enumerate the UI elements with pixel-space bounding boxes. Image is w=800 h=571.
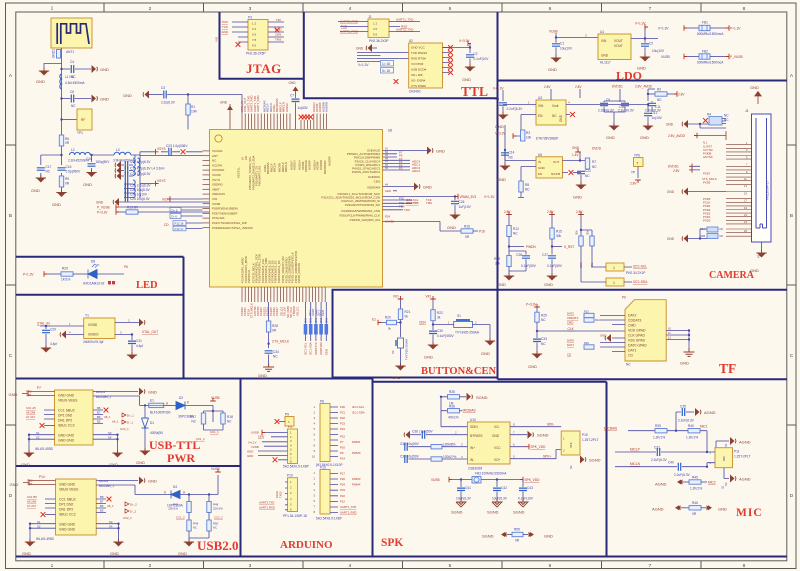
svg-text:GND GND: GND GND xyxy=(59,528,76,532)
svg-text:S1: S1 xyxy=(457,314,461,318)
svg-text:A6 2A6: A6 2A6 xyxy=(27,500,37,504)
svg-text:P+1.3V: P+1.3V xyxy=(23,273,34,277)
wire to U10 pin1 xyxy=(441,411,468,427)
svg-text:VCCIF: VCCIF xyxy=(212,173,221,177)
ferrite FB2 xyxy=(661,50,726,65)
resistor R12 xyxy=(507,226,519,256)
svg-text:10uF(6.3V: 10uF(6.3V xyxy=(492,497,508,501)
net VRAM_3V3 xyxy=(383,194,496,200)
svg-text:XTAL32K: XTAL32K xyxy=(212,216,225,220)
X mark JTAG right xyxy=(275,28,280,33)
P8 right nets xyxy=(330,405,365,461)
svg-text:S2: S2 xyxy=(391,350,395,354)
svg-text:5 6: 5 6 xyxy=(252,33,257,37)
svg-text:P20: P20 xyxy=(340,405,345,409)
U5 pin wires left xyxy=(505,150,536,181)
capacitor C19 row xyxy=(115,167,165,175)
net P_VUSB xyxy=(726,54,743,60)
border labels right xyxy=(790,73,794,499)
svg-text:7 8: 7 8 xyxy=(252,38,257,42)
svg-text:600MRu/1500mcA: 600MRu/1500mcA xyxy=(697,32,724,36)
svg-text:PXD7: PXD7 xyxy=(703,172,711,176)
svg-text:P8: P8 xyxy=(320,400,324,404)
svg-text:1.25T-2PLT: 1.25T-2PLT xyxy=(734,455,750,459)
svg-text:VO+: VO+ xyxy=(494,458,501,462)
svg-text:GND: GND xyxy=(96,201,104,205)
svg-text:GND: GND xyxy=(544,534,553,539)
resistor R25 TF xyxy=(535,312,547,338)
net DVDD1 2.8V cam xyxy=(668,164,700,174)
svg-text:0R: 0R xyxy=(65,141,70,145)
resistor R19 xyxy=(494,256,511,276)
svg-text:GND GND: GND GND xyxy=(59,483,76,487)
svg-text:GND: GND xyxy=(178,551,187,556)
capacitor C42 xyxy=(492,478,508,501)
USB P7 left CC rows xyxy=(26,406,55,428)
node L2 junction xyxy=(60,154,62,156)
svg-text:PXD0: PXD0 xyxy=(703,219,711,223)
svg-text:C23 1.0p(036V: C23 1.0p(036V xyxy=(166,144,188,148)
svg-text:NC: NC xyxy=(191,420,196,424)
svg-text:22K/1%: 22K/1% xyxy=(168,507,178,511)
svg-text:PWDN: PWDN xyxy=(526,245,536,249)
svg-text:U10: U10 xyxy=(470,418,476,422)
svg-text:TMS: TMS xyxy=(275,38,281,42)
svg-text:TXD: TXD xyxy=(341,25,348,29)
net 2.8V pull column 3 xyxy=(576,210,592,236)
node S_RST xyxy=(551,245,575,249)
MCU right GND mid xyxy=(383,183,433,191)
svg-text:P16: P16 xyxy=(340,446,345,450)
svg-text:C29: C29 xyxy=(50,328,56,332)
svg-text:FB2: FB2 xyxy=(702,50,708,54)
net VSYS upper xyxy=(156,147,166,155)
resistor R3 xyxy=(521,130,532,141)
resistor R2 xyxy=(648,88,685,103)
MCU top pin rotated net labels xyxy=(240,95,329,112)
svg-text:P17: P17 xyxy=(340,472,345,476)
JTAG left labels xyxy=(221,20,229,34)
svg-text:2.8V_AVDD: 2.8V_AVDD xyxy=(635,85,653,89)
capacitor C8 xyxy=(495,97,523,114)
net P+1.3V LED xyxy=(23,271,61,277)
svg-text:3 6: 3 6 xyxy=(373,27,378,31)
svg-text:P24: P24 xyxy=(340,483,345,487)
svg-text:C21: C21 xyxy=(585,169,591,173)
resistor R15 xyxy=(550,228,562,255)
border column ticks bottom xyxy=(104,561,701,569)
net 2.8V pull column 1 xyxy=(504,210,512,226)
TVS D1 xyxy=(142,404,165,450)
resistor R18 pwr xyxy=(212,410,233,430)
svg-text:CC2_2: CC2_2 xyxy=(123,516,132,520)
svg-text:P24/IRDA/PWM5/RAM_CSN: P24/IRDA/PWM5/RAM_CSN xyxy=(341,209,380,213)
svg-text:1.2K/1%: 1.2K/1% xyxy=(653,436,665,440)
USB P7 S1 S2 rows xyxy=(28,431,55,452)
svg-text:GND: GND xyxy=(21,462,30,467)
net V+3.3V TTL xyxy=(443,39,472,53)
svg-text:B8: B8 xyxy=(100,495,104,499)
svg-text:C16: C16 xyxy=(66,165,72,169)
svg-text:MICBIAS: MICBIAS xyxy=(463,409,476,413)
svg-text:S2: S2 xyxy=(724,482,728,486)
JTAG right pin wires xyxy=(268,22,284,42)
svg-text:GND: GND xyxy=(750,85,759,90)
svg-text:R1: R1 xyxy=(191,105,195,109)
camera connector U4 xyxy=(745,109,771,242)
svg-text:AGND: AGND xyxy=(655,482,667,487)
capacitor C9 xyxy=(598,98,620,113)
svg-text:0.1uF(10V: 0.1uF(10V xyxy=(518,497,534,501)
svg-text:OUT: OUT xyxy=(553,160,560,164)
svg-text:R36: R36 xyxy=(449,405,455,409)
svg-text:2.2uF(6.3V: 2.2uF(6.3V xyxy=(678,419,695,423)
svg-text:MICLN: MICLN xyxy=(630,462,641,466)
jumper D- box xyxy=(170,214,203,219)
svg-text:GND: GND xyxy=(22,551,31,556)
svg-text:GND: GND xyxy=(36,79,45,84)
svg-text:PWM3: PWM3 xyxy=(352,477,361,481)
svg-text:SPK: SPK xyxy=(569,442,573,448)
svg-text:2.2uF(6.3V: 2.2uF(6.3V xyxy=(645,109,662,113)
ground C14 xyxy=(497,163,510,182)
capacitor C16 xyxy=(58,165,82,174)
svg-text:P_VUSB: P_VUSB xyxy=(730,55,743,59)
svg-text:IN-: IN- xyxy=(470,458,474,462)
svg-text:DAT0: DAT0 xyxy=(567,339,574,343)
svg-text:P9: P9 xyxy=(285,413,289,417)
svg-text:VBUS VBUS: VBUS VBUS xyxy=(58,399,78,403)
svg-text:C15: C15 xyxy=(86,157,92,161)
svg-text:A8_1: A8_1 xyxy=(107,504,114,508)
capacitor C22 row xyxy=(124,180,151,198)
svg-text:600MRu/1500mcA: 600MRu/1500mcA xyxy=(697,61,724,65)
X marks on audio pins xyxy=(299,115,313,120)
svg-text:SD_D1: SD_D1 xyxy=(295,307,299,316)
svg-text:C7: C7 xyxy=(290,94,294,98)
svg-text:GND GND: GND GND xyxy=(58,394,75,398)
svg-text:AGND: AGND xyxy=(704,410,716,415)
svg-text:GND: GND xyxy=(481,351,490,356)
capacitor C2 TTL xyxy=(466,52,489,66)
svg-text:D- 6: D- 6 xyxy=(172,215,178,219)
capacitor C27 xyxy=(542,253,563,275)
svg-text:P7: P7 xyxy=(340,440,344,444)
svg-text:DP1 DN2: DP1 DN2 xyxy=(58,414,72,418)
X mark JTAG left xyxy=(236,42,241,47)
ground flag C6 xyxy=(92,95,110,103)
svg-text:R12: R12 xyxy=(513,227,519,231)
ground S1 xyxy=(481,338,495,356)
USB P14 mid rows w X xyxy=(96,495,137,520)
svg-text:UART1_TXD: UART1_TXD xyxy=(396,18,414,22)
ground TF xyxy=(680,348,695,366)
svg-text:3 4: 3 4 xyxy=(252,27,257,31)
ground C31 xyxy=(127,352,137,360)
ground row GND xyxy=(96,198,210,206)
svg-text:C2: C2 xyxy=(474,52,478,56)
IC U5 1.4V reg xyxy=(536,153,563,178)
svg-text:NC/FB: NC/FB xyxy=(551,172,560,176)
resistor R40 xyxy=(675,424,708,452)
svg-text:GND: GND xyxy=(100,97,109,102)
X mark U3 xyxy=(570,112,575,117)
P11 right nets xyxy=(330,472,361,515)
svg-text:SGND: SGND xyxy=(487,510,499,515)
ground C29 xyxy=(41,345,51,353)
svg-text:CC1_2: CC1_2 xyxy=(196,437,205,441)
svg-text:0.1uF(50V: 0.1uF(50V xyxy=(547,264,563,268)
svg-text:R39: R39 xyxy=(655,424,661,428)
svg-text:D: D xyxy=(790,493,794,499)
svg-text:VCCPA: VCCPA xyxy=(212,163,222,167)
svg-text:C22 2.2u(6.3V: C22 2.2u(6.3V xyxy=(130,184,151,188)
svg-text:D1: D1 xyxy=(150,421,154,425)
svg-text:GND: GND xyxy=(110,551,119,556)
svg-text:R17: R17 xyxy=(190,415,196,419)
svg-text:PH2.36-2X5P: PH2.36-2X5P xyxy=(246,52,266,56)
svg-text:1: 1 xyxy=(613,266,615,270)
svg-text:C4: C4 xyxy=(70,60,74,64)
ground C2 LDO xyxy=(637,54,650,71)
capacitor C6 xyxy=(62,90,92,108)
svg-text:I2C1-SDA: I2C1-SDA xyxy=(406,201,419,205)
svg-text:B6: B6 xyxy=(100,504,104,508)
svg-text:SGND: SGND xyxy=(482,534,494,539)
node C3/R1 xyxy=(187,93,189,95)
button S1 xyxy=(454,314,490,340)
capacitor C24 row xyxy=(125,189,148,197)
USB P14 right rows xyxy=(96,477,167,495)
svg-text:CAMERA: CAMERA xyxy=(709,270,755,281)
svg-text:2.2uF(6.3V: 2.2uF(6.3V xyxy=(651,458,668,462)
svg-text:8: 8 xyxy=(743,6,746,12)
MCU right short stubs xyxy=(383,150,421,173)
svg-text:GND: GND xyxy=(424,355,433,360)
connector P5 arduino xyxy=(283,425,309,469)
svg-text:GND: GND xyxy=(572,146,580,150)
capacitor C12 xyxy=(644,103,663,125)
net 1.4V DVDD xyxy=(572,146,602,157)
svg-text:GND: GND xyxy=(606,135,615,140)
node TF CLK xyxy=(536,327,625,332)
svg-text:1.2K/1%: 1.2K/1% xyxy=(686,436,698,440)
svg-text:PF1.34-1X6P-18: PF1.34-1X6P-18 xyxy=(283,514,307,518)
net P+3.3V TF xyxy=(526,303,540,313)
svg-text:Y1: Y1 xyxy=(85,314,89,318)
svg-text:B: B xyxy=(9,213,12,219)
capacitor C41 xyxy=(456,478,472,501)
svg-text:C20 4.7p(6.3V: C20 4.7p(6.3V xyxy=(130,172,151,176)
transformer coils xyxy=(133,158,140,198)
X mark C21 xyxy=(569,170,574,175)
svg-text:R20: R20 xyxy=(385,316,391,320)
svg-text:NC: NC xyxy=(552,114,557,118)
section divider LDO bottom xyxy=(498,80,787,82)
svg-text:C1: C1 xyxy=(560,42,564,46)
svg-text:WLUS-495D: WLUS-495D xyxy=(36,537,55,541)
svg-text:L1 NC: L1 NC xyxy=(65,75,75,79)
svg-text:GND: GND xyxy=(52,202,61,207)
svg-text:RXD2: RXD2 xyxy=(275,491,279,498)
svg-text:VIO: VIO xyxy=(393,295,399,299)
svg-text:GND: GND xyxy=(640,135,649,140)
section divider CAMERA/TF xyxy=(498,289,787,291)
node C xyxy=(60,118,62,120)
svg-text:C18 4.7p(6.3V: C18 4.7p(6.3V xyxy=(130,160,151,164)
svg-text:R4: R4 xyxy=(707,113,711,117)
svg-text:C24 1u(10V: C24 1u(10V xyxy=(130,193,148,197)
svg-text:JTAG: JTAG xyxy=(246,61,282,76)
svg-text:VDDRAM: VDDRAM xyxy=(367,186,381,190)
svg-text:MIC: MIC xyxy=(722,456,726,461)
svg-text:3K3: 3K3 xyxy=(309,318,313,323)
svg-text:GND: GND xyxy=(148,390,157,395)
svg-text:TP: TP xyxy=(631,171,635,175)
net VSYS lower xyxy=(140,179,166,186)
capacitor C10 xyxy=(618,101,635,113)
svg-text:PWR: PWR xyxy=(167,451,195,465)
svg-text:SPK: SPK xyxy=(381,537,403,549)
svg-text:22K/1%: 22K/1% xyxy=(213,507,223,511)
svg-text:R23: R23 xyxy=(584,310,589,314)
svg-text:P24: P24 xyxy=(340,427,345,431)
capacitor C34 xyxy=(265,350,279,363)
svg-text:GNDIO: GNDIO xyxy=(88,333,99,337)
svg-text:VUSB: VUSB xyxy=(211,396,220,400)
svg-text:SGND: SGND xyxy=(513,510,525,515)
ground P14 left xyxy=(22,539,35,556)
test point RF TP1 xyxy=(62,109,93,135)
svg-text:GND2: GND2 xyxy=(52,49,56,58)
section divider lower left horizontals xyxy=(16,379,607,382)
ground C17 xyxy=(31,175,46,193)
ground C26 xyxy=(447,212,460,230)
svg-text:USB DCD#: USB DCD# xyxy=(411,68,427,72)
svg-text:Vout: Vout xyxy=(552,104,558,108)
ground camera top right xyxy=(750,85,762,104)
MCU top-inside rotated pin names xyxy=(237,155,332,190)
JTAG left pin wires xyxy=(232,22,248,42)
svg-text:GND: GND xyxy=(247,450,253,454)
svg-text:5H2.54X0.5-1X8P: 5H2.54X0.5-1X8P xyxy=(283,465,309,469)
svg-text:R21: R21 xyxy=(405,310,411,314)
svg-text:DN1 DP2: DN1 DP2 xyxy=(59,508,73,512)
resistor R17 pwr xyxy=(190,411,223,430)
border row ticks right xyxy=(787,145,796,425)
svg-text:NC: NC xyxy=(525,188,530,192)
svg-text:R1B: R1B xyxy=(700,234,705,238)
svg-text:P3/I2S_DOUT/ADC2: P3/I2S_DOUT/ADC2 xyxy=(352,170,380,174)
svg-text:9 0: 9 0 xyxy=(252,44,257,48)
svg-text:C42: C42 xyxy=(501,486,507,490)
svg-text:120k/8%: 120k/8% xyxy=(443,443,456,447)
button S2 xyxy=(391,338,409,365)
svg-text:DP1 DN2: DP1 DN2 xyxy=(59,503,73,507)
svg-text:D+_2: D+_2 xyxy=(130,503,137,507)
svg-text:PWM0: PWM0 xyxy=(352,451,361,455)
svg-text:MICLN: MICLN xyxy=(273,163,277,172)
svg-text:IN: IN xyxy=(538,160,541,164)
svg-text:CTS DSR#: CTS DSR# xyxy=(411,84,426,88)
capacitor C38 row xyxy=(400,442,468,451)
agnd C35 xyxy=(695,408,716,416)
svg-text:ARDUINO: ARDUINO xyxy=(280,539,333,551)
svg-text:GND GND: GND GND xyxy=(58,434,75,438)
ground C12 xyxy=(640,123,653,140)
svg-text:S_RST: S_RST xyxy=(564,245,574,249)
diode D4 xyxy=(164,475,218,508)
svg-text:TP1: TP1 xyxy=(77,131,83,135)
svg-text:AGND: AGND xyxy=(652,507,664,512)
capacitor C21 xyxy=(573,169,591,184)
resistor array RA1 xyxy=(700,227,723,232)
svg-text:B: B xyxy=(790,213,793,219)
svg-text:R3: R3 xyxy=(526,131,530,135)
svg-text:30k: 30k xyxy=(575,230,579,235)
ground camera mid xyxy=(667,188,726,196)
svg-text:C36 | 1uF(50V: C36 | 1uF(50V xyxy=(412,430,434,434)
svg-text:2: 2 xyxy=(149,6,152,12)
svg-text:P20: P20 xyxy=(399,197,404,201)
resistor R50 xyxy=(189,520,219,538)
svg-text:NC: NC xyxy=(213,526,217,530)
svg-text:C37: C37 xyxy=(654,446,660,450)
svg-text:CC1 B5: CC1 B5 xyxy=(27,495,37,499)
X mark TTL bottom xyxy=(394,79,399,84)
svg-text:C35: C35 xyxy=(680,405,686,409)
svg-text:P6: P6 xyxy=(622,296,626,300)
svg-text:C30: C30 xyxy=(437,329,443,333)
ground flag C4 xyxy=(92,65,110,73)
svg-text:TXD RS232: TXD RS232 xyxy=(411,51,427,55)
ground S2 xyxy=(392,363,406,380)
sgnd C42 xyxy=(487,499,502,515)
svg-text:P23/RES/ADC7/PGA_INN/WK: P23/RES/ADC7/PGA_INN/WK xyxy=(212,226,253,230)
capacitor C2 LDO xyxy=(641,39,665,57)
svg-text:A6_1: A6_1 xyxy=(112,420,119,424)
svg-text:D+ 5: D+ 5 xyxy=(172,209,178,213)
svg-text:DVDD1: DVDD1 xyxy=(668,165,679,169)
capacitor C25 row xyxy=(125,185,150,193)
section divider LED box xyxy=(16,257,184,379)
net VUSB usb2 xyxy=(211,467,221,472)
net MICBIAS mic xyxy=(604,427,655,431)
svg-text:GND: GND xyxy=(718,507,727,512)
svg-text:GND: GND xyxy=(573,195,582,200)
resistor R? antenna feed xyxy=(52,49,61,58)
capacitor C39 row xyxy=(400,455,468,464)
resistor R39 xyxy=(653,424,688,440)
USB P14 left CC rows xyxy=(27,495,56,517)
svg-text:ANT: ANT xyxy=(212,154,218,158)
svg-text:SBU1 CC2: SBU1 CC2 xyxy=(58,424,75,428)
net CEN row xyxy=(385,189,397,193)
section divider USB split xyxy=(16,379,241,557)
svg-text:UART1TX: UART1TX xyxy=(314,342,318,355)
svg-text:P15: P15 xyxy=(582,433,588,437)
svg-text:VSYS: VSYS xyxy=(212,178,220,182)
svg-text:CC2_1: CC2_1 xyxy=(120,427,129,431)
svg-text:CEN: CEN xyxy=(258,435,264,439)
svg-text:CC1 SBU2: CC1 SBU2 xyxy=(58,409,75,413)
resistor array RA2 xyxy=(700,234,723,239)
svg-text:MIC: MIC xyxy=(736,507,763,519)
svg-text:R40: R40 xyxy=(688,424,694,428)
svg-text:GND: GND xyxy=(221,30,229,34)
TTL conn left wires xyxy=(340,22,368,32)
USB connector P7 xyxy=(35,386,93,451)
